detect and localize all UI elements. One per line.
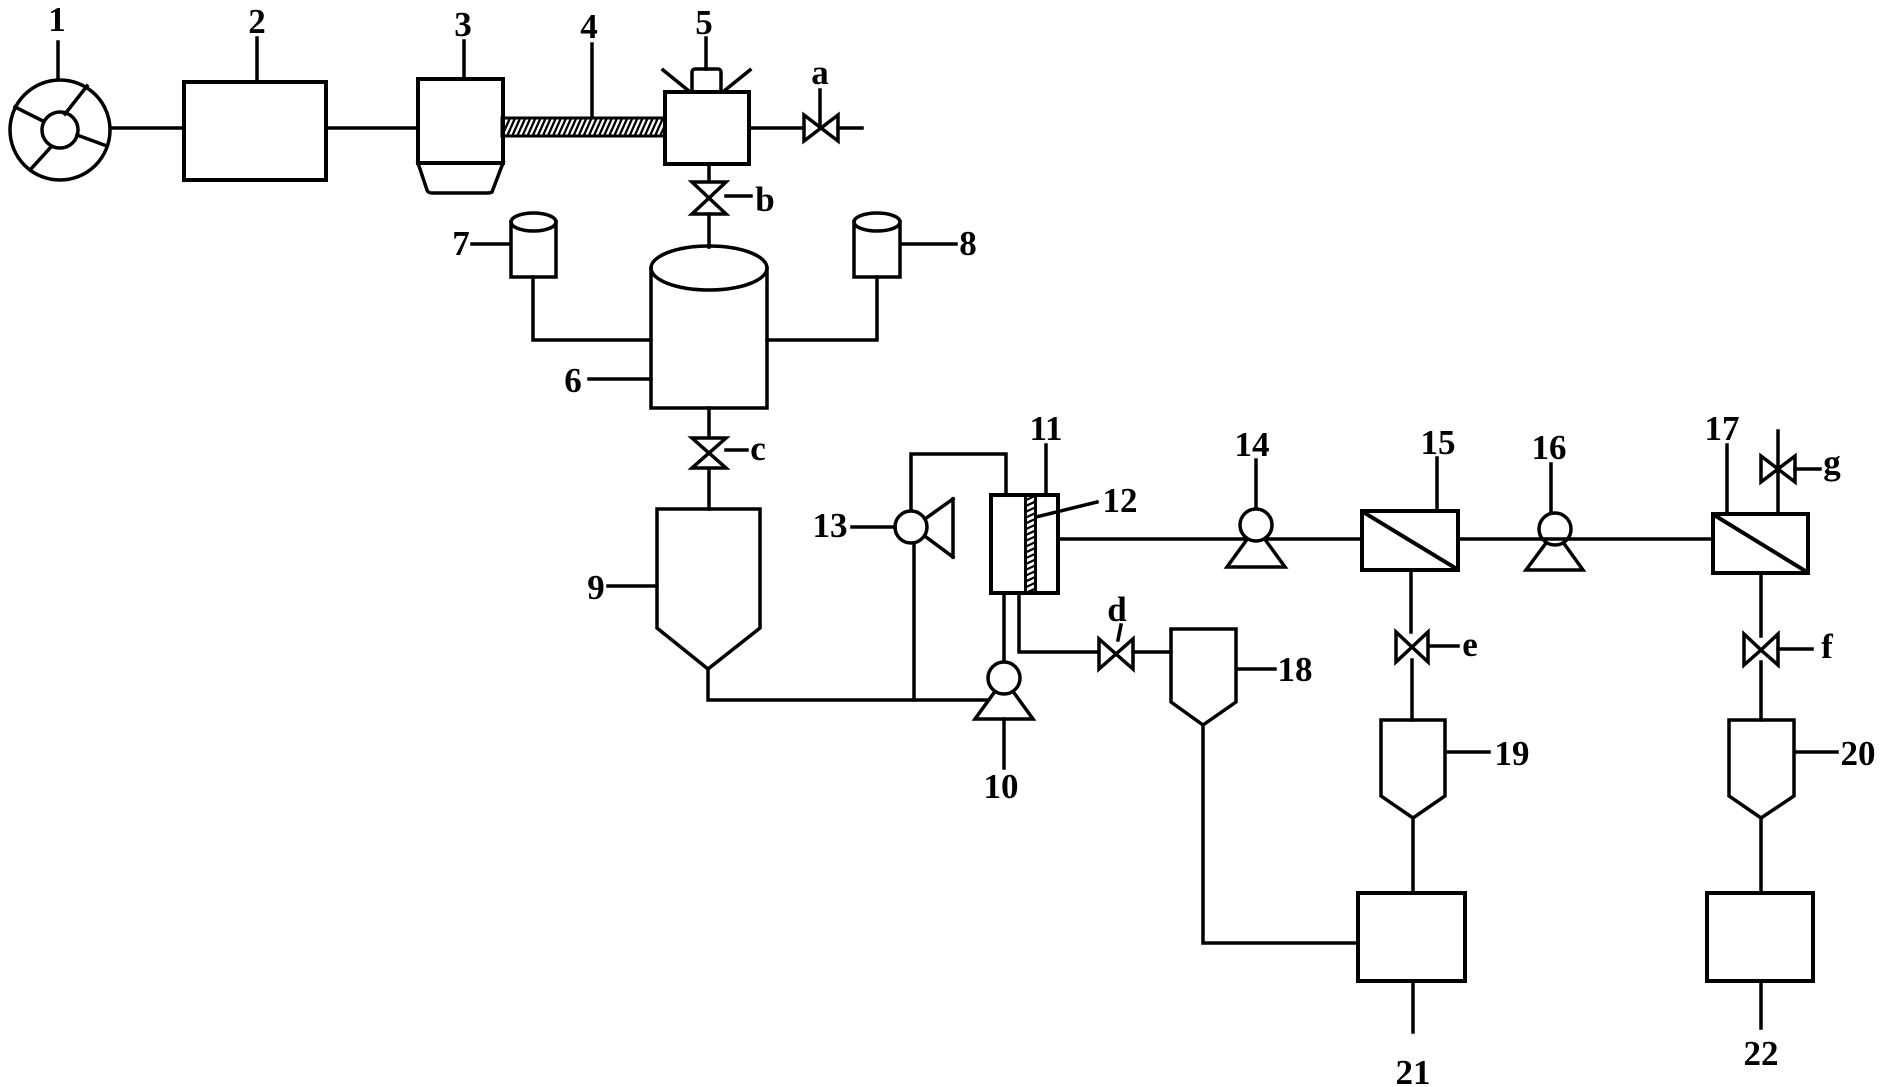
valve a <box>804 115 838 141</box>
pump 16 <box>1526 513 1583 570</box>
pump 10 <box>975 662 1033 719</box>
pipe 15-17 <box>1458 537 1713 541</box>
svg-text:2: 2 <box>248 2 266 41</box>
wire 5-a <box>749 126 804 130</box>
label e <box>1429 625 1478 664</box>
label 5 <box>695 3 713 69</box>
svg-text:3: 3 <box>454 5 472 44</box>
label 8 <box>903 224 977 263</box>
tank 6 <box>651 246 767 408</box>
label 9 <box>587 568 657 607</box>
svg-text:15: 15 <box>1421 423 1456 462</box>
svg-text:8: 8 <box>959 224 977 263</box>
label g <box>1795 443 1841 482</box>
label 10 <box>984 719 1019 806</box>
svg-text:16: 16 <box>1532 428 1567 467</box>
wire 2-3 <box>326 126 418 130</box>
valve e <box>1396 632 1428 662</box>
svg-text:5: 5 <box>695 3 713 42</box>
pipe 9-10 <box>708 669 990 700</box>
hopper 18 <box>1171 629 1236 725</box>
wire 1-2 <box>111 126 184 130</box>
outlet 22 <box>1759 981 1763 1028</box>
valve g stem <box>1776 431 1780 514</box>
svg-text:17: 17 <box>1705 409 1740 448</box>
wire 15-e <box>1409 570 1413 632</box>
label c <box>726 429 766 468</box>
wire c-9 <box>707 469 711 509</box>
label 19 <box>1447 734 1530 773</box>
svg-text:1: 1 <box>48 0 66 39</box>
label d <box>1107 590 1127 640</box>
valve b <box>692 182 726 214</box>
svg-text:c: c <box>750 429 766 468</box>
svg-text:g: g <box>1823 443 1841 482</box>
svg-text:10: 10 <box>984 767 1019 806</box>
outlet 21 <box>1411 981 1415 1032</box>
svg-text:b: b <box>755 180 774 219</box>
fan 13 <box>895 511 927 543</box>
wire e-19 <box>1410 660 1414 720</box>
label 17 <box>1705 409 1740 514</box>
valve f <box>1744 634 1778 665</box>
svg-text:e: e <box>1462 625 1478 664</box>
hopper 3 <box>418 79 503 193</box>
wire b-6 <box>707 214 711 247</box>
label 7 <box>452 224 509 263</box>
svg-text:6: 6 <box>564 361 582 400</box>
valve c <box>692 438 726 468</box>
wire 6-c <box>707 408 711 438</box>
membrane 15 <box>1362 511 1458 570</box>
svg-text:7: 7 <box>452 224 470 263</box>
pipe 18-21 <box>1203 725 1358 943</box>
svg-text:f: f <box>1821 627 1833 666</box>
label 20 <box>1796 734 1876 773</box>
membrane module 11 <box>991 495 1058 593</box>
hopper 9 <box>657 509 760 669</box>
label a <box>811 53 829 128</box>
label 14 <box>1235 425 1270 509</box>
svg-text:22: 22 <box>1744 1034 1779 1073</box>
pipe 11-15 <box>1058 537 1362 541</box>
label b <box>726 180 775 219</box>
svg-text:4: 4 <box>580 7 598 46</box>
pipe 8-6 <box>767 277 877 340</box>
svg-text:14: 14 <box>1235 425 1270 464</box>
label 3 <box>454 5 472 79</box>
label 18 <box>1238 650 1313 689</box>
pipe 19-21 <box>1411 818 1415 893</box>
svg-text:18: 18 <box>1278 650 1313 689</box>
hopper 20 <box>1729 720 1794 818</box>
pump 14 <box>1227 509 1285 567</box>
label 15 <box>1421 423 1456 511</box>
screw conveyor 4 <box>502 118 678 136</box>
svg-text:20: 20 <box>1841 734 1876 773</box>
pipe 11-10 <box>1002 593 1006 663</box>
pipe 20-22 <box>1759 818 1763 893</box>
valve g <box>1761 456 1795 482</box>
label 2 <box>248 2 266 82</box>
hopper 19 <box>1381 720 1445 818</box>
label 13 <box>813 506 896 545</box>
svg-text:12: 12 <box>1103 481 1138 520</box>
tank 8 <box>854 213 900 277</box>
valve d <box>1099 639 1133 669</box>
wire f-20 <box>1759 662 1763 720</box>
svg-text:13: 13 <box>813 506 848 545</box>
membrane 12 hatch <box>1024 495 1037 600</box>
riser to 13 <box>912 543 916 700</box>
fan 13 horn <box>922 499 953 557</box>
wire 17-f <box>1759 573 1763 636</box>
blower 1 <box>10 80 110 180</box>
svg-text:d: d <box>1107 590 1127 629</box>
svg-text:9: 9 <box>587 568 605 607</box>
burner 5 <box>663 69 750 164</box>
unit 21 <box>1358 893 1465 981</box>
wire d-18 <box>1133 650 1171 654</box>
svg-text:11: 11 <box>1029 409 1062 448</box>
membrane 17 <box>1713 514 1808 573</box>
svg-text:a: a <box>811 53 829 92</box>
wire a-out <box>838 126 862 130</box>
label 1 <box>48 0 66 79</box>
label f <box>1778 627 1833 666</box>
wire 5-b <box>707 164 711 183</box>
label 12 <box>1036 481 1138 520</box>
tank 7 <box>511 213 556 277</box>
label 11 <box>1029 409 1062 495</box>
unit 2 <box>184 82 326 180</box>
svg-text:21: 21 <box>1396 1053 1431 1087</box>
svg-text:19: 19 <box>1495 734 1530 773</box>
pipe 13-11 top <box>911 454 1006 511</box>
pipe 11-d <box>1019 593 1099 652</box>
label 4 <box>580 7 598 117</box>
pipe 7-6 <box>533 277 651 340</box>
label 16 <box>1532 428 1567 513</box>
label 6 <box>564 361 651 400</box>
unit 22 <box>1707 893 1813 981</box>
